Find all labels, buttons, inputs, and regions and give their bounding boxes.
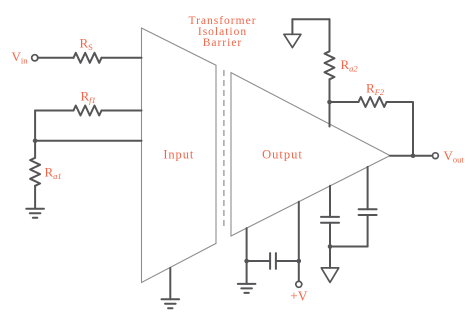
node C2 ground junction xyxy=(328,244,333,249)
ground below common xyxy=(238,283,256,285)
wire left vertical xyxy=(34,111,36,158)
capacitor C2 plates xyxy=(321,216,339,218)
resistor Ra1 xyxy=(30,158,40,186)
ground below Ra1 xyxy=(26,208,44,210)
wire output to Vout xyxy=(390,155,432,157)
wire signal ground stub top right xyxy=(291,19,293,34)
wire filter C3 down xyxy=(367,167,369,209)
wire Vin to RS xyxy=(38,57,74,59)
op-amp U1 output stage body xyxy=(231,73,390,236)
svg-text:Transformer: Transformer xyxy=(188,15,256,27)
capacitor C1 lead right xyxy=(276,260,299,262)
wire filter C2 down xyxy=(329,186,331,217)
node feedback junction xyxy=(33,138,38,143)
terminal Vout xyxy=(433,153,439,159)
wire +V supply xyxy=(298,202,300,282)
wire Rf1 to input stage xyxy=(102,110,142,112)
wire C2 to node xyxy=(329,223,331,247)
ground open triangle top right xyxy=(284,34,301,47)
resistor Rf1 xyxy=(74,106,102,116)
wire node horizontal xyxy=(330,246,368,248)
capacitor C3 plates xyxy=(359,208,377,210)
wire Rf1 feedback upper xyxy=(35,110,73,112)
node Ra2 RF2 junction xyxy=(327,100,332,105)
node C1 left junction xyxy=(244,259,249,264)
wire node to RF2 xyxy=(330,101,359,103)
resistor Ra2 xyxy=(325,51,335,79)
wire Ra2 to output stage xyxy=(329,79,331,126)
wire Ra1 to ground xyxy=(34,186,36,209)
svg-text:Barrier: Barrier xyxy=(203,37,243,49)
resistor RF2 xyxy=(359,97,387,107)
node Vout junction xyxy=(411,153,416,158)
capacitor C1 plates xyxy=(269,253,271,269)
wire RS to input stage xyxy=(102,57,142,59)
isolation barrier dashed line xyxy=(223,70,225,230)
ground open triangle bottom xyxy=(321,268,338,283)
wire C3 to node xyxy=(367,215,369,247)
wire output common down xyxy=(246,228,248,284)
svg-text:+V: +V xyxy=(290,289,308,304)
svg-text:Input: Input xyxy=(163,147,194,161)
node C1 right junction xyxy=(297,259,302,264)
capacitor bypass C1 lead left xyxy=(247,260,271,262)
terminal +V xyxy=(296,281,302,287)
wire node stub to ground xyxy=(329,247,331,268)
wire RF2 to Vout xyxy=(387,102,414,156)
ground below input stage xyxy=(162,298,180,300)
terminal Vin xyxy=(32,55,38,61)
wire input stage to ground xyxy=(169,268,171,299)
wire down to Ra2 xyxy=(329,19,331,51)
op-amp U1 input stage body xyxy=(142,28,217,283)
wire lower feedback xyxy=(35,140,141,142)
resistor RS xyxy=(74,53,102,63)
svg-text:Output: Output xyxy=(262,147,303,161)
wire top horizontal xyxy=(292,18,329,20)
label Transformer Isolation Barrier xyxy=(188,15,256,49)
